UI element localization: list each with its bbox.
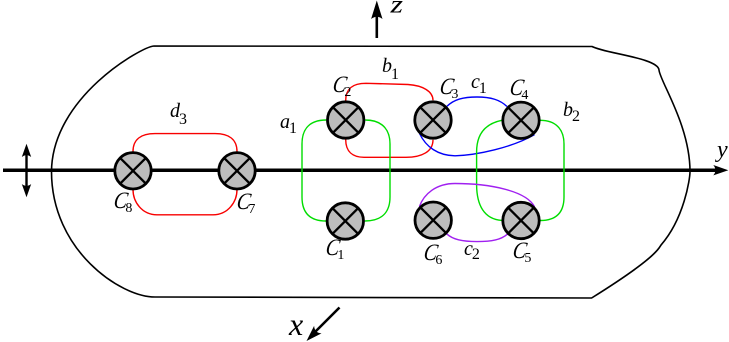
- x-axis arrow: [307, 308, 340, 342]
- curve b1 upper arc (red): [346, 83, 433, 100]
- boundary outline (stadium surface): [52, 46, 691, 298]
- curve d3 lower arc (red): [133, 190, 237, 215]
- label c1: [471, 72, 487, 97]
- circle C3: [415, 102, 451, 138]
- circle C1: [327, 203, 363, 239]
- label b1: [382, 56, 399, 83]
- curve b2 outer branch (green): [540, 120, 564, 220]
- curve b1 lower arc (red): [346, 140, 433, 158]
- curve c2 upper arc (purple): [419, 184, 534, 207]
- label C6: [423, 241, 442, 268]
- circle C2: [328, 102, 364, 138]
- circle C6: [415, 202, 451, 238]
- double-headed arrow on y-axis (left): [22, 144, 31, 197]
- label b2: [563, 100, 580, 125]
- y-axis line: [3, 168, 716, 172]
- y-axis arrowhead: [713, 165, 728, 175]
- curve c2 lower arc (purple): [447, 234, 508, 242]
- label C2: [332, 73, 351, 100]
- label a1: [280, 112, 297, 137]
- label C7: [236, 190, 255, 217]
- svg-text:z: z: [389, 0, 403, 19]
- curve c1 lower arc (blue): [420, 134, 535, 156]
- circle C7: [219, 153, 255, 189]
- label C8: [113, 189, 132, 216]
- label c2: [464, 239, 480, 263]
- circle C4: [503, 102, 539, 138]
- label C4: [509, 76, 528, 103]
- label x: [289, 308, 303, 340]
- circle C8: [115, 153, 151, 189]
- curve a1 right branch (green): [365, 120, 390, 221]
- label C1: [325, 236, 344, 263]
- label y: [717, 138, 728, 162]
- curve a1 left branch (green): [302, 120, 326, 221]
- curve b2 inner branch (green): [477, 120, 502, 220]
- z-axis arrow: [371, 1, 382, 39]
- label d3: [170, 101, 187, 128]
- label C3: [439, 75, 458, 102]
- curve c1 upper arc (blue): [447, 97, 507, 107]
- circle C5: [503, 202, 539, 238]
- curve d3 upper arc (red): [133, 134, 237, 152]
- label C5: [512, 239, 531, 266]
